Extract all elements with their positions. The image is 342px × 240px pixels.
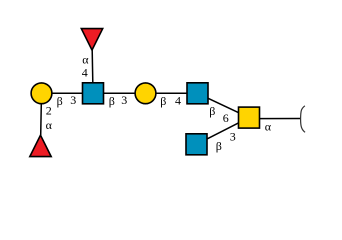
wire Fuc1-GlcNAc1 (vertical top)	[92, 39, 93, 93]
svg-text:β: β	[209, 104, 215, 118]
svg-text:2: 2	[46, 103, 52, 117]
wire Fuc2-Gal1 (vertical bottom)	[41, 93, 42, 146]
svg-text:β: β	[160, 94, 166, 108]
glcnac GlcNAc1 (blue square)	[83, 83, 104, 104]
svg-text:4: 4	[175, 94, 181, 108]
svg-text:α: α	[265, 120, 272, 134]
svg-text:6: 6	[223, 111, 229, 125]
svg-text:α: α	[46, 118, 53, 132]
wire GlcNAc2-GalNAc (1-6 branch)	[198, 93, 250, 117]
wire GlcNAc1-Gal2	[93, 92, 146, 94]
squiggle reducing-end bracket	[301, 106, 306, 133]
wire GalNAc to reducing end	[249, 118, 301, 120]
svg-text:α: α	[82, 53, 89, 67]
svg-text:3: 3	[230, 129, 236, 143]
svg-text:4: 4	[82, 66, 88, 80]
wire GlcNAc3-GalNAc (1-3 branch)	[197, 118, 250, 145]
galactose Gal2 (yellow circle)	[135, 83, 156, 104]
galnac GalNAc (yellow square, reducing end)	[239, 107, 260, 128]
fucose Fuc2 (red triangle, points up)	[30, 135, 51, 156]
svg-text:β: β	[57, 94, 63, 108]
svg-text:3: 3	[121, 93, 127, 107]
svg-text:β: β	[216, 139, 222, 153]
wire Gal2-GlcNAc2	[146, 92, 198, 94]
svg-text:3: 3	[70, 93, 76, 107]
fucose Fuc1 (red triangle, points down)	[81, 29, 102, 50]
galactose Gal1 (yellow circle)	[31, 83, 52, 104]
wire Gal1-GlcNAc1	[42, 92, 94, 94]
glcnac GlcNAc3 (blue square, lower branch)	[186, 134, 207, 155]
svg-text:β: β	[109, 94, 115, 108]
glcnac GlcNAc2 (blue square)	[187, 83, 208, 104]
